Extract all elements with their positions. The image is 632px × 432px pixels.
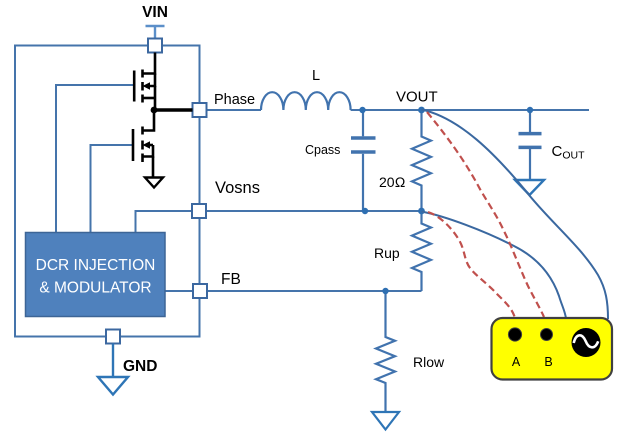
ground GND triangle: [98, 377, 128, 395]
svg-text:Rup: Rup: [374, 245, 400, 261]
probe curve blue divider to generator: [422, 212, 567, 319]
svg-text:Vosns: Vosns: [215, 179, 260, 197]
junction COUT: [527, 107, 533, 113]
svg-text:Cpass: Cpass: [305, 143, 340, 157]
signal generator box: [492, 318, 613, 380]
resistor Rup: [412, 211, 431, 291]
sine source symbol: [572, 328, 601, 357]
capacitor Cpass: [351, 110, 376, 211]
svg-text:A: A: [512, 355, 521, 369]
svg-text:Phase: Phase: [214, 92, 255, 108]
ground below Rlow: [372, 412, 399, 430]
svg-text:& MODULATOR: & MODULATOR: [39, 280, 151, 297]
junction Rlow tap: [382, 288, 388, 294]
wire Phase to inductor: [207, 109, 262, 111]
wire rail Phase to Vosns: [199, 117, 201, 204]
junction switch node: [151, 107, 158, 114]
probe curve blue VOUT to generator: [422, 110, 609, 320]
port square GND: [106, 330, 120, 344]
svg-text:L: L: [312, 68, 320, 84]
inductor L: [261, 92, 351, 110]
junction Cpass bottom: [362, 208, 368, 214]
port square VIN: [148, 39, 162, 53]
wire bottom rail: [14, 336, 200, 338]
resistor Rlow: [376, 291, 395, 412]
transistor Q2 body arrow: [143, 141, 151, 149]
VIN terminal symbol: [146, 26, 165, 39]
op-amp block DCR INJECTION & MODULATOR: [26, 233, 166, 317]
svg-text:B: B: [544, 355, 552, 369]
wire FB to modulator block: [165, 290, 193, 292]
resistor 20ohm: [412, 110, 431, 212]
probe curve red dashed divider to A: [428, 212, 515, 318]
wire switch node black: [154, 108, 193, 111]
wire rail Vosns to FB: [199, 218, 201, 284]
transistor Q2 low-side MOSFET: [133, 110, 154, 178]
wire left outer vertical: [14, 45, 16, 337]
junction Cpass top: [359, 107, 365, 113]
wire gate drive low-side: [91, 145, 134, 233]
svg-text:VIN: VIN: [142, 4, 168, 21]
svg-text:DCR INJECTION: DCR INJECTION: [36, 257, 156, 274]
svg-text:GND: GND: [123, 358, 157, 375]
junction VOUT: [418, 107, 425, 114]
wire gate drive high-side: [56, 85, 134, 233]
wire FB rail right: [207, 290, 422, 292]
ground below COUT: [515, 180, 544, 195]
ground below Q2: [145, 178, 163, 188]
svg-text:FB: FB: [221, 271, 241, 288]
port square Vosns: [192, 204, 206, 218]
wire VOUT rail: [351, 109, 589, 111]
wire Vosns rail right: [206, 210, 422, 212]
port square Phase: [193, 103, 207, 117]
wire Vosns to modulator block: [136, 211, 193, 233]
wire top rail right and drop to Phase: [162, 46, 200, 104]
terminal B: [541, 329, 553, 341]
transistor Q1 body arrow: [143, 82, 151, 90]
svg-text:Rlow: Rlow: [413, 354, 445, 370]
wire rail FB to bottom: [199, 298, 201, 338]
transistor Q1 high-side MOSFET: [134, 53, 155, 112]
svg-text:20Ω: 20Ω: [379, 174, 406, 190]
probe curve red dashed VOUT to B: [427, 112, 544, 317]
terminal A: [508, 328, 521, 341]
junction Vosns divider: [418, 208, 425, 215]
svg-text:VOUT: VOUT: [396, 89, 438, 106]
capacitor COUT: [519, 110, 542, 180]
wire top rail left (VIN rail): [15, 45, 148, 47]
GND stem: [112, 344, 114, 378]
port square FB: [193, 284, 207, 298]
